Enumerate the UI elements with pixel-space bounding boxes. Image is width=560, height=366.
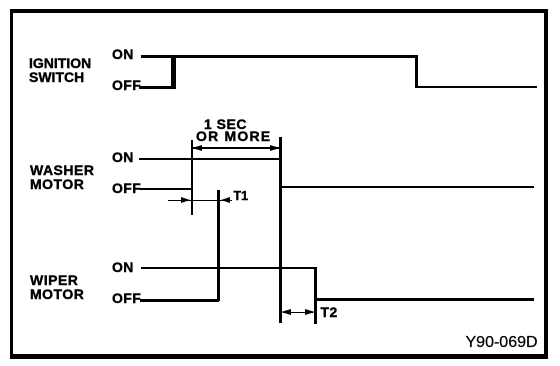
label WASHER MOTOR: [30, 163, 94, 191]
label wiper OFF: [112, 292, 141, 304]
wire washer OFF level left: [139, 188, 192, 191]
label ignition ON: [112, 48, 134, 60]
label washer ON: [112, 151, 134, 163]
dimension arrow T2: [283, 312, 313, 314]
extension line washer falling edge: [279, 137, 282, 323]
dimension arrow 1 SEC OR MORE: [193, 147, 280, 149]
label ignition OFF: [112, 79, 141, 91]
wire wiper OFF level left: [140, 299, 219, 302]
wire wiper OFF level right: [314, 298, 534, 300]
label WIPER MOTOR: [30, 273, 84, 301]
wire wiper rising edge: [217, 190, 220, 301]
wire ignition OFF level right: [416, 86, 537, 88]
wire wiper ON level: [141, 267, 316, 270]
label Y90-069D: [466, 336, 538, 350]
dimension arrow T1: [168, 200, 232, 202]
extension line washer rising edge: [191, 140, 193, 215]
wire ignition OFF level left: [139, 86, 175, 89]
label 1 SEC OR MORE: [204, 119, 271, 142]
wire ignition ON level: [141, 55, 418, 58]
label IGNITION SWITCH: [29, 56, 91, 84]
label wiper ON: [112, 261, 134, 273]
label T2: [321, 306, 338, 319]
wire washer ON level: [139, 158, 281, 161]
wire ignition falling edge: [415, 55, 418, 88]
wire wiper falling edge: [314, 267, 317, 324]
wire ignition rising edge: [171, 55, 176, 89]
label washer OFF: [112, 182, 141, 194]
label T1: [234, 191, 249, 202]
wire washer OFF level right: [280, 186, 534, 188]
